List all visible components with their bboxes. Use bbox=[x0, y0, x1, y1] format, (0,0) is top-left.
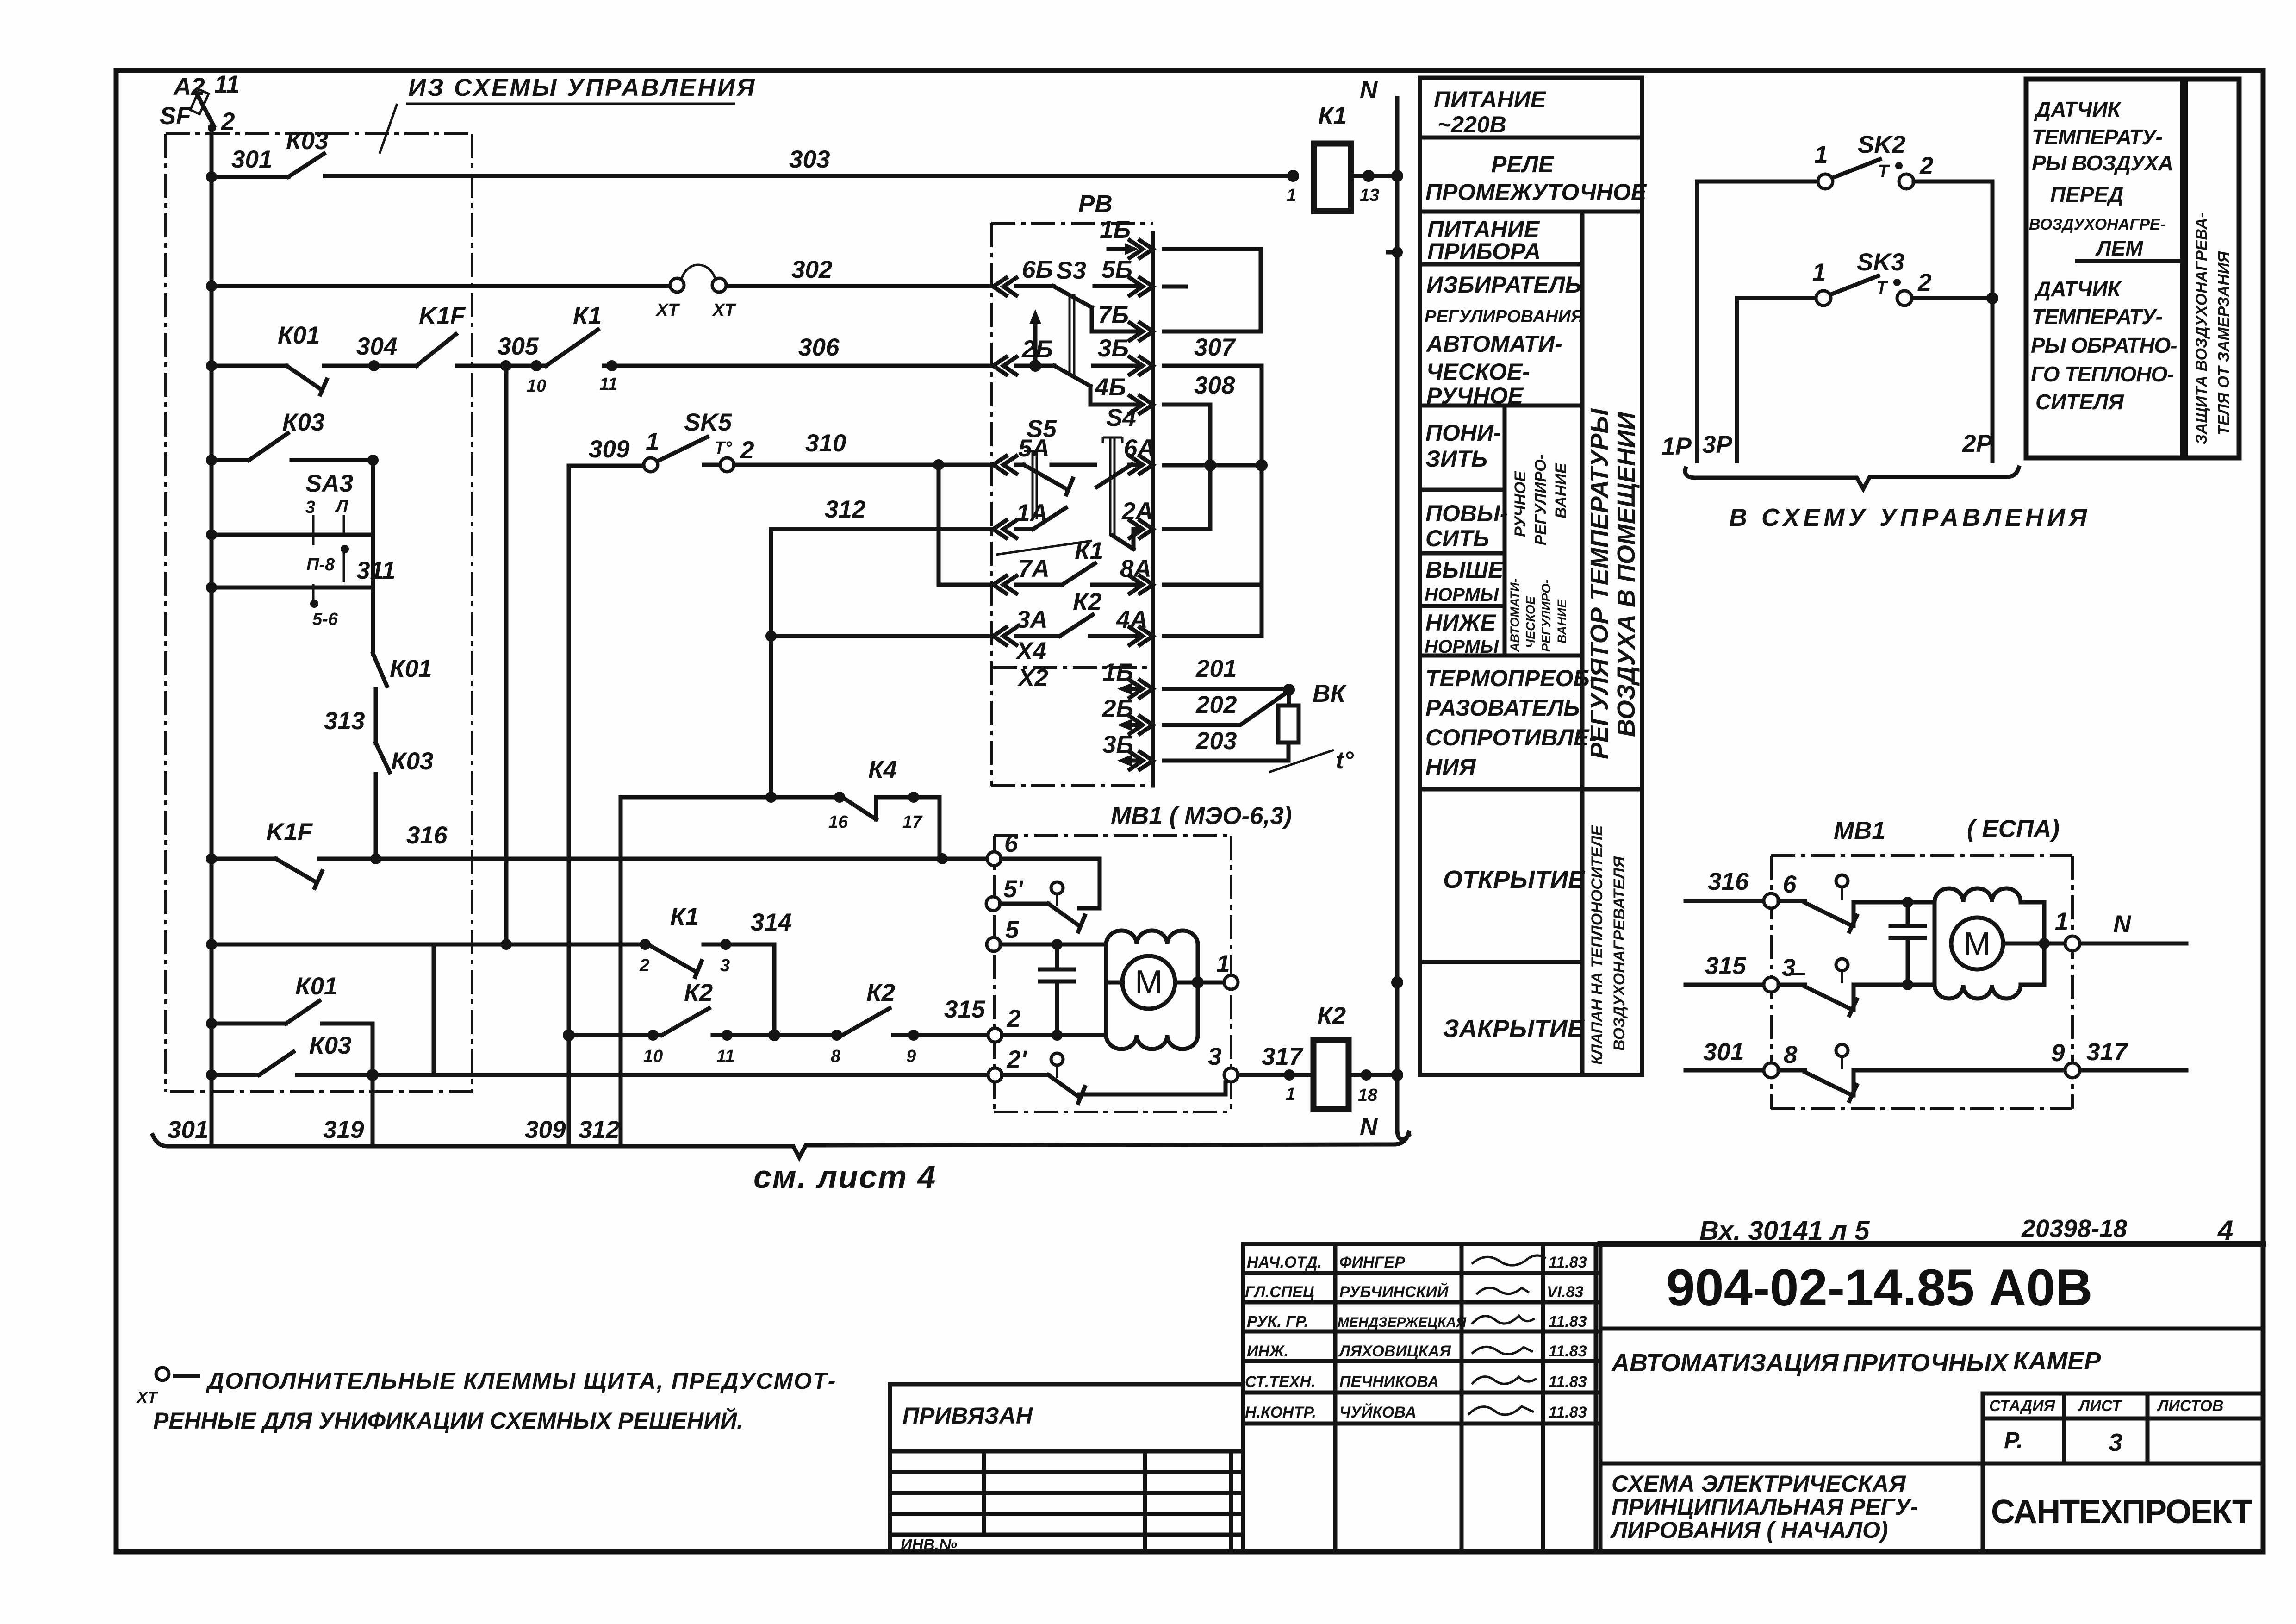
svg-text:ХТ: ХТ bbox=[712, 300, 736, 320]
svg-text:9: 9 bbox=[906, 1047, 916, 1066]
breaker SF (A2) top-left bbox=[160, 71, 240, 135]
left bus 301 vertical bbox=[210, 128, 214, 1144]
svg-text:303: 303 bbox=[789, 146, 830, 173]
svg-text:301: 301 bbox=[1703, 1038, 1744, 1066]
svg-text:S3: S3 bbox=[1056, 257, 1086, 284]
contact K1 pins 10-11 (wire 305-306) bbox=[531, 360, 542, 371]
svg-text:ХТ: ХТ bbox=[136, 1389, 159, 1406]
svg-text:РВ: РВ bbox=[1078, 190, 1113, 218]
svg-text:304: 304 bbox=[356, 333, 397, 360]
svg-text:6Б: 6Б bbox=[1022, 256, 1053, 283]
svg-text:РУЧНОЕ: РУЧНОЕ bbox=[1426, 383, 1524, 409]
ЕСПА terminal 3 bbox=[1764, 977, 1779, 992]
svg-text:308: 308 bbox=[1194, 372, 1235, 399]
function table (right of ladder) bbox=[1420, 78, 1642, 1075]
svg-text:305: 305 bbox=[498, 333, 539, 360]
svg-text:S4: S4 bbox=[1106, 404, 1136, 431]
resistance thermometer BK bbox=[1269, 680, 1354, 774]
svg-text:РУБЧИНСКИЙ: РУБЧИНСКИЙ bbox=[1339, 1283, 1449, 1301]
svg-text:VI.83: VI.83 bbox=[1547, 1283, 1583, 1301]
svg-text:319: 319 bbox=[323, 1116, 364, 1143]
svg-text:ВК: ВК bbox=[1313, 680, 1347, 707]
svg-text:ПРИБОРА: ПРИБОРА bbox=[1427, 238, 1541, 264]
svg-text:10: 10 bbox=[643, 1047, 663, 1066]
svg-text:ПРИНЦИПИАЛЬНАЯ РЕГУ-: ПРИНЦИПИАЛЬНАЯ РЕГУ- bbox=[1612, 1494, 1918, 1520]
svg-text:ИНВ.№: ИНВ.№ bbox=[901, 1536, 957, 1554]
switch S3 lower throw (2Б-4Б) bbox=[1016, 366, 1140, 405]
contact K03 (left chain, to SA3) bbox=[212, 433, 373, 460]
contact K1 pins 2-3 (wire 314) bbox=[640, 939, 651, 950]
MB1 lower limit switch bbox=[1002, 1075, 1085, 1103]
svg-text:SА3: SА3 bbox=[305, 470, 353, 497]
title block frame bbox=[1600, 1244, 2263, 1552]
binding table (ПРИВЯЗАН) bbox=[890, 1384, 1243, 1552]
MB1 terminal 1 bbox=[1224, 975, 1238, 989]
svg-text:ВАНИЕ: ВАНИЕ bbox=[1552, 462, 1570, 518]
svg-text:11: 11 bbox=[599, 375, 617, 394]
svg-text:309: 309 bbox=[525, 1116, 566, 1143]
svg-text:3: 3 bbox=[2109, 1429, 2122, 1456]
svg-text:К01: К01 bbox=[390, 655, 432, 682]
svg-text:НАЧ.ОТД.: НАЧ.ОТД. bbox=[1247, 1254, 1322, 1271]
svg-text:К4: К4 bbox=[868, 756, 897, 783]
switch S3 inside PB bbox=[1016, 257, 1140, 375]
svg-text:АВТОМАТИ-: АВТОМАТИ- bbox=[1425, 331, 1562, 357]
svg-text:ВЫШЕ: ВЫШЕ bbox=[1425, 557, 1504, 583]
svg-text:ГЛ.СПЕЦ: ГЛ.СПЕЦ bbox=[1245, 1283, 1314, 1301]
vertical label: Защита воздухонагревателя от замерзания bbox=[2185, 79, 2239, 458]
svg-text:РЫ ОБРАТНО-: РЫ ОБРАТНО- bbox=[2031, 333, 2177, 357]
svg-text:ВОЗДУХОНАГРЕВАТЕЛЯ: ВОЗДУХОНАГРЕВАТЕЛЯ bbox=[1611, 856, 1628, 1051]
vertical label: Регулятор температуры воздуха в помещении bbox=[1586, 408, 1640, 759]
svg-text:ПРОМЕЖУТОЧНОЕ: ПРОМЕЖУТОЧНОЕ bbox=[1425, 179, 1647, 205]
svg-text:301: 301 bbox=[231, 146, 272, 173]
svg-text:20398-18: 20398-18 bbox=[2021, 1215, 2127, 1243]
svg-text:ВОЗДУХОНАГРЕ-: ВОЗДУХОНАГРЕ- bbox=[2029, 216, 2165, 233]
note "ИЗ СХЕМЫ УПРАВЛЕНИЯ" with leader bbox=[380, 74, 756, 154]
svg-text:ТЕМПЕРАТУ-: ТЕМПЕРАТУ- bbox=[2032, 125, 2162, 149]
svg-text:Р.: Р. bbox=[2004, 1427, 2023, 1453]
svg-text:18: 18 bbox=[1358, 1086, 1378, 1105]
svg-text:ПРИВЯЗАН: ПРИВЯЗАН bbox=[902, 1403, 1033, 1429]
svg-text:ПОВЫ-: ПОВЫ- bbox=[1425, 500, 1508, 526]
wire 3A bbox=[771, 634, 991, 638]
svg-text:РУЧНОЕ: РУЧНОЕ bbox=[1512, 471, 1529, 537]
svg-text:РУК. ГР.: РУК. ГР. bbox=[1247, 1313, 1308, 1330]
svg-text:ИЗБИРАТЕЛЬ: ИЗБИРАТЕЛЬ bbox=[1426, 272, 1581, 298]
svg-text:СТАДИЯ: СТАДИЯ bbox=[1989, 1397, 2056, 1415]
svg-text:Л: Л bbox=[335, 497, 348, 516]
svg-text:РЕГУЛИРО-: РЕГУЛИРО- bbox=[1532, 454, 1549, 545]
contact K1F (wire 316) bbox=[276, 859, 322, 888]
svg-text:7А: 7А bbox=[1018, 555, 1050, 582]
svg-text:11: 11 bbox=[716, 1047, 734, 1066]
svg-text:К01: К01 bbox=[278, 322, 320, 349]
MB1 terminal 6 bbox=[987, 852, 1001, 866]
svg-text:316: 316 bbox=[406, 822, 448, 849]
svg-text:ТЕРМОПРЕОБ-: ТЕРМОПРЕОБ- bbox=[1425, 665, 1597, 691]
PB right-edge arrows (outputs) bbox=[1130, 240, 1153, 769]
svg-text:В СХЕМУ УПРАВЛЕНИЯ: В СХЕМУ УПРАВЛЕНИЯ bbox=[1729, 504, 2091, 531]
svg-text:~220В: ~220В bbox=[1437, 112, 1506, 137]
contact K01 (left chain vertical) bbox=[373, 587, 387, 743]
svg-text:РЕГУЛИРОВАНИЯ: РЕГУЛИРОВАНИЯ bbox=[1425, 307, 1584, 326]
svg-text:К1: К1 bbox=[573, 302, 602, 330]
thermostat SK3 circuit bbox=[1737, 249, 1998, 461]
wire 317 bbox=[1238, 1073, 1312, 1077]
svg-text:ЛЕМ: ЛЕМ bbox=[2095, 236, 2144, 260]
ЕСПА terminal 9 / wire 317 bbox=[2065, 1063, 2080, 1078]
svg-text:1: 1 bbox=[2055, 908, 2068, 935]
svg-text:317: 317 bbox=[2086, 1038, 2128, 1066]
wire 319 bbox=[371, 1075, 375, 1144]
ЕСПА lower limit switch bbox=[1779, 1070, 2065, 1101]
svg-text:8: 8 bbox=[1784, 1041, 1798, 1068]
svg-text:5Б: 5Б bbox=[1101, 256, 1132, 283]
note: additional terminals bbox=[136, 1368, 836, 1434]
wire 7A branch bbox=[939, 465, 991, 585]
svg-text:см. лист 4: см. лист 4 bbox=[753, 1159, 936, 1195]
vertical label: Ручное регулирование bbox=[1512, 454, 1570, 545]
vertical label: Клапан на теплоносителе воздухонагревателя bbox=[1588, 825, 1628, 1065]
svg-text:К03: К03 bbox=[309, 1032, 352, 1059]
thermostat SK2 circuit bbox=[1697, 131, 1992, 461]
svg-text:315: 315 bbox=[1705, 952, 1747, 980]
svg-text:2: 2 bbox=[1919, 152, 1933, 180]
switch П-8 / 5-6 (wire 311) bbox=[206, 545, 396, 629]
svg-text:312: 312 bbox=[579, 1116, 619, 1143]
svg-text:ВАНИЕ: ВАНИЕ bbox=[1555, 599, 1569, 643]
svg-text:2: 2 bbox=[1007, 1005, 1020, 1032]
svg-text:СИТЬ: СИТЬ bbox=[1425, 525, 1489, 551]
svg-text:КАМЕР: КАМЕР bbox=[2013, 1347, 2101, 1375]
svg-text:К03: К03 bbox=[286, 127, 329, 155]
svg-text:ЗИТЬ: ЗИТЬ bbox=[1425, 446, 1487, 472]
svg-text:1: 1 bbox=[1216, 950, 1230, 978]
svg-text:САНТЕХПРОЕКТ: САНТЕХПРОЕКТ bbox=[1991, 1493, 2252, 1530]
staff table grid bbox=[1243, 1244, 1600, 1552]
svg-text:1: 1 bbox=[646, 428, 659, 456]
svg-text:2Р: 2Р bbox=[1962, 430, 1992, 457]
svg-text:315: 315 bbox=[944, 996, 986, 1023]
svg-text:ПРИТОЧНЫХ: ПРИТОЧНЫХ bbox=[1843, 1349, 2010, 1377]
bracket 307-6А-8А-4А bbox=[1164, 366, 1262, 636]
MB1 terminal 5' bbox=[986, 897, 1000, 911]
svg-text:МЕНДЗЕРЖЕЦКАЯ: МЕНДЗЕРЖЕЦКАЯ bbox=[1338, 1315, 1467, 1330]
selector SA3 positions 3 / Л bbox=[206, 460, 373, 587]
wire 5Б stub bbox=[1164, 285, 1186, 289]
ЕСПА capacitor bbox=[1891, 902, 1925, 985]
svg-text:РЕГУЛИРО-: РЕГУЛИРО- bbox=[1539, 580, 1553, 652]
svg-text:ЗАЩИТА ВОЗДУХОНАГРЕВА-: ЗАЩИТА ВОЗДУХОНАГРЕВА- bbox=[2193, 212, 2210, 444]
svg-text:3: 3 bbox=[1208, 1043, 1221, 1070]
svg-text:1Б: 1Б bbox=[1100, 216, 1131, 244]
svg-text:РАЗОВАТЕЛЬ: РАЗОВАТЕЛЬ bbox=[1425, 695, 1580, 721]
svg-text:6А: 6А bbox=[1124, 435, 1155, 462]
svg-text:К01: К01 bbox=[295, 973, 338, 1000]
svg-text:6: 6 bbox=[1004, 830, 1018, 857]
svg-text:ДОПОЛНИТЕЛЬНЫЕ КЛЕММЫ ЩИТА,: ДОПОЛНИТЕЛЬНЫЕ КЛЕММЫ ЩИТА, ПРЕДУСМОТ- bbox=[205, 1368, 836, 1394]
svg-text:ТЕЛЯ ОТ ЗАМЕРЗАНИЯ: ТЕЛЯ ОТ ЗАМЕРЗАНИЯ bbox=[2215, 251, 2233, 435]
ЕСПА motor M bbox=[1951, 918, 2003, 969]
svg-text:N: N bbox=[2113, 911, 2132, 938]
switch S4 inside PB bbox=[1052, 404, 1140, 549]
svg-text:2: 2 bbox=[639, 956, 649, 975]
svg-text:МВ1: МВ1 bbox=[1834, 817, 1885, 844]
svg-text:1: 1 bbox=[1287, 186, 1296, 205]
svg-text:К1: К1 bbox=[670, 903, 699, 931]
svg-text:203: 203 bbox=[1195, 727, 1237, 755]
wire 301 (to ЕСПА) bbox=[1686, 1068, 1764, 1073]
svg-text:3Б: 3Б bbox=[1102, 731, 1133, 758]
wire 303 bbox=[325, 174, 1292, 178]
svg-text:5-6: 5-6 bbox=[312, 610, 338, 629]
svg-text:SK2: SK2 bbox=[1858, 131, 1905, 158]
svg-text:11: 11 bbox=[214, 71, 240, 98]
svg-text:ВОЗДУХА В ПОМЕЩЕНИИ: ВОЗДУХА В ПОМЕЩЕНИИ bbox=[1612, 412, 1640, 737]
svg-text:2: 2 bbox=[221, 108, 235, 135]
svg-text:К1: К1 bbox=[1318, 102, 1347, 130]
svg-text:ГО ТЕПЛОНО-: ГО ТЕПЛОНО- bbox=[2031, 362, 2174, 386]
brace "В схему управления" bbox=[1685, 468, 2019, 489]
sensor text box (Датчик температуры) bbox=[2026, 79, 2183, 458]
svg-text:4А: 4А bbox=[1116, 606, 1148, 633]
wire 304 bbox=[212, 364, 286, 368]
svg-text:ТЕМПЕРАТУ-: ТЕМПЕРАТУ- bbox=[2032, 305, 2162, 329]
wire 316 (to ЕСПА) bbox=[1686, 899, 1764, 903]
ЕСПА upper limit switch bbox=[1779, 901, 1935, 931]
svg-text:310: 310 bbox=[805, 430, 846, 457]
svg-text:11.83: 11.83 bbox=[1549, 1313, 1587, 1330]
svg-text:НОРМЫ: НОРМЫ bbox=[1425, 637, 1499, 657]
svg-text:11.83: 11.83 bbox=[1549, 1404, 1587, 1421]
svg-text:316: 316 bbox=[1708, 868, 1749, 895]
svg-text:8: 8 bbox=[831, 1047, 841, 1066]
svg-text:2: 2 bbox=[740, 437, 754, 464]
svg-text:16: 16 bbox=[828, 812, 848, 832]
svg-text:SF: SF bbox=[160, 102, 192, 130]
wire 309 vertical bbox=[569, 466, 644, 1144]
wire 315 row bbox=[569, 1033, 662, 1037]
wire 1Б to N bracket bbox=[1164, 249, 1261, 331]
bottom brace bus to sheet 4 bbox=[153, 1132, 1409, 1157]
svg-text:11.83: 11.83 bbox=[1549, 1373, 1587, 1391]
svg-text:ЛИСТ: ЛИСТ bbox=[2078, 1397, 2123, 1415]
svg-text:РЕЛЕ: РЕЛЕ bbox=[1491, 151, 1555, 177]
svg-text:ЧЕСКОЕ-: ЧЕСКОЕ- bbox=[1426, 359, 1530, 385]
relay-block PB (time relay) dash-dot enclosure bbox=[991, 223, 1153, 786]
PB left-edge arrows (inputs) bbox=[993, 278, 1016, 645]
MB1 terminal 3 bbox=[1224, 1068, 1238, 1082]
svg-text:202: 202 bbox=[1195, 691, 1237, 718]
svg-text:S5: S5 bbox=[1027, 415, 1057, 443]
svg-text:СТ.ТЕХН.: СТ.ТЕХН. bbox=[1245, 1373, 1315, 1391]
actuator MB1 (ЕСПА) enclosure bbox=[1771, 856, 2072, 1109]
contact K1 (7А-8А) inside PB bbox=[996, 541, 1092, 555]
svg-text:307: 307 bbox=[1194, 334, 1236, 361]
svg-text:SK3: SK3 bbox=[1857, 249, 1904, 276]
svg-text:К2: К2 bbox=[866, 979, 895, 1006]
ЕСПА middle limit switch bbox=[1779, 985, 1935, 1015]
svg-text:П-8: П-8 bbox=[306, 555, 335, 575]
svg-text:309: 309 bbox=[589, 436, 630, 463]
svg-text:ЛЯХОВИЦКАЯ: ЛЯХОВИЦКАЯ bbox=[1338, 1343, 1451, 1360]
wire 312 bbox=[771, 527, 991, 531]
svg-text:3: 3 bbox=[1782, 954, 1795, 981]
svg-text:314: 314 bbox=[751, 909, 791, 936]
svg-text:312: 312 bbox=[825, 496, 865, 523]
wire 307 (3Б) bbox=[1164, 364, 1262, 368]
actuator MB1 (МЭО-6,3) enclosure bbox=[994, 836, 1231, 1112]
contact K01 (wire 304) bbox=[286, 366, 327, 394]
svg-text:АВТОМАТИЗАЦИЯ: АВТОМАТИЗАЦИЯ bbox=[1611, 1349, 1839, 1377]
contact S5 lower arm (1А) bbox=[1016, 508, 1066, 529]
svg-text:306: 306 bbox=[798, 334, 840, 361]
svg-text:АВТОМАТИ-: АВТОМАТИ- bbox=[1508, 578, 1522, 652]
svg-text:4Б: 4Б bbox=[1095, 374, 1126, 401]
contact K4 pins 16-17 bbox=[834, 792, 845, 803]
svg-text:Т: Т bbox=[1878, 162, 1890, 181]
contact K03 (wire 317 row) bbox=[212, 1052, 989, 1075]
relay coil K1 bbox=[1287, 102, 1397, 211]
svg-text:ИЗ СХЕМЫ УПРАВЛЕНИЯ: ИЗ СХЕМЫ УПРАВЛЕНИЯ bbox=[408, 74, 756, 101]
svg-text:9: 9 bbox=[2051, 1039, 2065, 1067]
MB1 capacitor bbox=[1040, 944, 1074, 1035]
svg-text:КЛАПАН НА ТЕПЛОНОСИТЕЛЕ: КЛАПАН НА ТЕПЛОНОСИТЕЛЕ bbox=[1588, 825, 1606, 1065]
wire 316 bbox=[212, 857, 276, 861]
svg-text:3: 3 bbox=[720, 956, 730, 975]
svg-text:ЛИРОВАНИЯ ( НАЧАЛО): ЛИРОВАНИЯ ( НАЧАЛО) bbox=[1610, 1517, 1888, 1543]
contact K03 (on wire 301/303) bbox=[288, 154, 324, 177]
svg-text:1: 1 bbox=[1286, 1085, 1295, 1104]
svg-text:11.83: 11.83 bbox=[1549, 1343, 1587, 1360]
svg-text:ЗАКРЫТИЕ: ЗАКРЫТИЕ bbox=[1443, 1015, 1585, 1043]
svg-text:ХТ: ХТ bbox=[655, 300, 680, 320]
MB1 upper limit switch bbox=[1001, 859, 1100, 908]
svg-text:3Б: 3Б bbox=[1098, 335, 1129, 362]
svg-text:11.83: 11.83 bbox=[1549, 1254, 1587, 1271]
contact K1F (wire 304-305) bbox=[417, 334, 456, 366]
svg-text:ДАТЧИК: ДАТЧИК bbox=[2034, 97, 2122, 121]
svg-text:ПИТАНИЕ: ПИТАНИЕ bbox=[1434, 87, 1547, 112]
MB1 terminal 5 bbox=[987, 937, 1001, 951]
svg-text:РЕННЫЕ ДЛЯ УНИФИКАЦИИ СХЕМН: РЕННЫЕ ДЛЯ УНИФИКАЦИИ СХЕМНЫХ РЕШЕНИЙ. bbox=[153, 1407, 743, 1434]
svg-text:Т: Т bbox=[1876, 278, 1888, 298]
svg-text:6: 6 bbox=[1783, 871, 1797, 898]
internal arrow up (1Б feed) bbox=[1033, 319, 1038, 366]
contact K2 pins 10-11 (wire 315 row) bbox=[662, 1008, 709, 1035]
svg-text:3А: 3А bbox=[1016, 606, 1048, 633]
svg-text:М: М bbox=[1964, 925, 1991, 962]
svg-text:K1F: K1F bbox=[266, 818, 313, 846]
svg-text:ЛИСТОВ: ЛИСТОВ bbox=[2156, 1397, 2223, 1415]
svg-text:3: 3 bbox=[305, 498, 315, 517]
svg-text:2А: 2А bbox=[1121, 498, 1153, 525]
contact K01 (row 2211) bbox=[212, 1001, 373, 1075]
svg-text:N: N bbox=[1360, 76, 1378, 104]
wire K4 row / wire 312 lower vertical bbox=[621, 797, 842, 1144]
svg-text:1Б: 1Б bbox=[1102, 659, 1133, 686]
relay coil K2 bbox=[1313, 1002, 1397, 1109]
svg-text:Т°: Т° bbox=[714, 438, 732, 458]
svg-text:1Р: 1Р bbox=[1661, 433, 1692, 460]
svg-text:СХЕМА ЭЛЕКТРИЧЕСКАЯ: СХЕМА ЭЛЕКТРИЧЕСКАЯ bbox=[1612, 1471, 1906, 1497]
svg-text:М: М bbox=[1135, 964, 1163, 1001]
svg-text:5': 5' bbox=[1003, 875, 1024, 903]
svg-text:РЕГУЛЯТОР ТЕМПЕРАТУРЫ: РЕГУЛЯТОР ТЕМПЕРАТУРЫ bbox=[1586, 408, 1613, 759]
svg-text:K1F: K1F bbox=[419, 302, 466, 330]
wire 310 bbox=[734, 463, 991, 467]
svg-text:ДАТЧИК: ДАТЧИК bbox=[2034, 277, 2122, 301]
svg-text:N: N bbox=[1360, 1113, 1378, 1141]
svg-text:К2: К2 bbox=[1317, 1002, 1346, 1030]
svg-text:313: 313 bbox=[324, 707, 365, 735]
svg-text:311: 311 bbox=[356, 557, 396, 584]
svg-text:5: 5 bbox=[1005, 916, 1020, 943]
svg-text:ЧУЙКОВА: ЧУЙКОВА bbox=[1339, 1403, 1416, 1421]
switch S5 inside PB bbox=[1016, 415, 1073, 519]
svg-text:Н.КОНТР.: Н.КОНТР. bbox=[1245, 1404, 1316, 1421]
svg-text:ОТКРЫТИЕ: ОТКРЫТИЕ bbox=[1443, 866, 1586, 893]
svg-text:СИТЕЛЯ: СИТЕЛЯ bbox=[2035, 390, 2124, 414]
svg-text:НИЖЕ: НИЖЕ bbox=[1425, 610, 1496, 636]
svg-text:МВ1 ( МЭО-6,3): МВ1 ( МЭО-6,3) bbox=[1111, 802, 1292, 830]
svg-text:НОРМЫ: НОРМЫ bbox=[1425, 585, 1499, 605]
svg-text:201: 201 bbox=[1195, 655, 1237, 682]
ЕСПА terminal 1 / node N bbox=[2065, 936, 2080, 951]
svg-text:СОПРОТИВЛЕ-: СОПРОТИВЛЕ- bbox=[1425, 725, 1597, 750]
svg-text:904-02-14.85 А0В: 904-02-14.85 А0В bbox=[1666, 1259, 2092, 1317]
vertical label: Автоматическое регулирование bbox=[1508, 578, 1569, 652]
svg-text:8А: 8А bbox=[1120, 555, 1151, 582]
MB1 motor windings and motor M bbox=[1001, 943, 1106, 947]
svg-text:13: 13 bbox=[1360, 186, 1379, 205]
svg-text:ПЕРЕД: ПЕРЕД bbox=[2050, 182, 2123, 206]
svg-text:РЫ ВОЗДУХА: РЫ ВОЗДУХА bbox=[2032, 151, 2173, 175]
svg-text:ПЕЧНИКОВА: ПЕЧНИКОВА bbox=[1339, 1373, 1439, 1391]
panel boundary dash-dot box bbox=[166, 134, 475, 1092]
svg-text:301: 301 bbox=[168, 1116, 208, 1143]
MB1 terminal 2 bbox=[988, 1028, 1002, 1042]
svg-text:2Б: 2Б bbox=[1102, 695, 1133, 722]
svg-text:302: 302 bbox=[791, 256, 832, 283]
svg-text:2: 2 bbox=[1917, 269, 1931, 296]
wire 302 with XT terminals bbox=[212, 284, 991, 288]
svg-text:К03: К03 bbox=[282, 409, 325, 436]
svg-text:К1: К1 bbox=[1075, 537, 1103, 565]
svg-text:ЧЕСКОЕ: ЧЕСКОЕ bbox=[1524, 596, 1537, 648]
svg-text:Х4: Х4 bbox=[1015, 637, 1046, 665]
thermostat SK5 pins 1-2 (wire 309-310) bbox=[644, 409, 754, 472]
svg-text:К03: К03 bbox=[391, 748, 434, 775]
wire 315 (to ЕСПА) bbox=[1686, 983, 1764, 987]
svg-text:НИЯ: НИЯ bbox=[1425, 754, 1476, 780]
svg-text:SK5: SK5 bbox=[684, 409, 733, 436]
svg-text:317: 317 bbox=[1262, 1043, 1304, 1070]
svg-text:t°: t° bbox=[1336, 747, 1354, 774]
MB1 terminal 2' bbox=[988, 1068, 1002, 1082]
ЕСПА motor windings bbox=[1935, 888, 2044, 999]
ЕСПА terminal 6 bbox=[1764, 893, 1779, 908]
wire 308 (4Б) bbox=[1164, 403, 1210, 407]
svg-text:10: 10 bbox=[527, 376, 546, 396]
svg-text:1: 1 bbox=[1814, 141, 1828, 169]
svg-text:К2: К2 bbox=[684, 979, 713, 1006]
ЕСПА terminal 8 bbox=[1764, 1063, 1779, 1078]
svg-text:К2: К2 bbox=[1073, 588, 1101, 616]
svg-text:ИНЖ.: ИНЖ. bbox=[1247, 1343, 1288, 1360]
wire 301 bbox=[212, 175, 288, 179]
